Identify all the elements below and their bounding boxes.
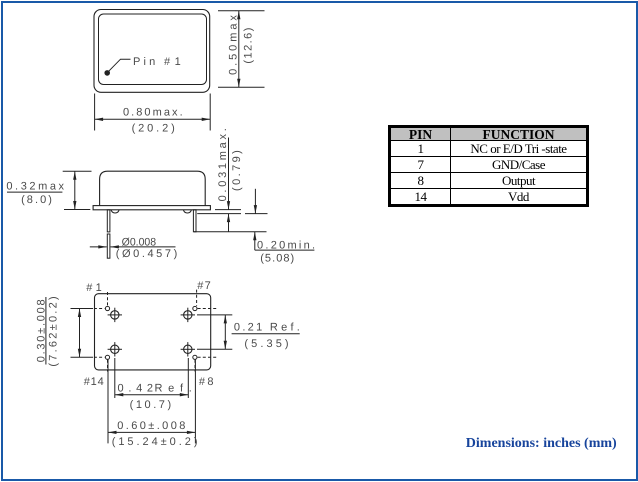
dim 0.21 underline: [232, 333, 300, 335]
top view outer outline: [94, 10, 210, 93]
svg-text:0.60±.008: 0.60±.008: [117, 420, 185, 432]
svg-text:(12.6): (12.6): [243, 28, 255, 64]
svg-text:0.21: 0.21: [234, 322, 262, 334]
dim 0.031max lower arrow line: [228, 214, 230, 232]
dim 0.30 fraction bar (vertical): [45, 297, 47, 365]
svg-text:Ø0.008: Ø0.008: [122, 236, 157, 248]
side view case body: [100, 171, 206, 205]
dim 0.30 extension line top: [71, 308, 94, 310]
hole #1 small circle: [105, 306, 109, 310]
leader dash #7 vertical: [196, 290, 198, 306]
svg-text:0.30±.008: 0.30±.008: [35, 299, 47, 362]
dim 0.20min upper arrow line: [254, 189, 256, 214]
pad #8 circle: [184, 345, 192, 353]
svg-text:#1: #1: [164, 56, 181, 68]
dim 0.80max extension line right: [209, 94, 211, 131]
dim 0.50max extension line top: [218, 10, 265, 12]
svg-text:0.80max.: 0.80max.: [123, 107, 183, 119]
dim 0.42 dimension line with arrows: [115, 394, 189, 396]
dim 0.32max extension line top: [63, 170, 92, 172]
dim 0.42 extension line left: [114, 358, 116, 398]
dim 0.60 extension line right: [194, 360, 196, 444]
svg-text:(15.24±0.2): (15.24±0.2): [112, 436, 198, 448]
standoff bottom extension line left: [197, 213, 241, 215]
svg-text:0.50max.: 0.50max.: [227, 9, 239, 75]
dim 0.30 dimension line with arrows: [79, 309, 81, 358]
pin #1 leader line: [109, 59, 131, 71]
leader dash #14 horizontal: [94, 356, 105, 358]
pad #14 cross: [108, 348, 122, 350]
dimensions note: [466, 438, 617, 451]
side view pin shoulder right: [184, 210, 192, 213]
side view base plate: [93, 206, 210, 210]
svg-text:(10.7): (10.7): [130, 399, 172, 411]
leader dash #7 horizontal: [198, 308, 219, 310]
svg-text:(7.62±0.2): (7.62±0.2): [47, 296, 59, 366]
svg-text:(5.08): (5.08): [260, 252, 294, 264]
pad #7 circle: [184, 311, 192, 319]
leader dash #1 horizontal: [94, 308, 105, 310]
dim 0.20min underline: [255, 249, 315, 251]
svg-text:(0.79): (0.79): [231, 150, 243, 191]
pad #1 circle: [111, 311, 119, 319]
standoff bottom extension line right: [245, 213, 268, 215]
svg-text:0.42: 0.42: [118, 382, 154, 394]
dim pin diameter right arrow with bar: [110, 246, 175, 248]
svg-text:(8.0): (8.0): [21, 194, 52, 206]
dim 0.031max upper arrow line: [228, 138, 230, 210]
dim 0.21 dimension line with arrows: [224, 315, 226, 349]
pin #1 index dot: [104, 70, 110, 76]
dim 0.32max fraction bar: [7, 191, 62, 193]
svg-text:Pin: Pin: [133, 56, 155, 68]
pin function table: [388, 125, 589, 207]
dim 0.50max dimension line with arrows: [238, 11, 240, 88]
side view pin shoulder left: [111, 210, 119, 213]
svg-text:#14: #14: [84, 376, 104, 388]
dim pin diameter left arrow: [90, 246, 107, 248]
hole #7 small circle: [193, 306, 197, 310]
dim 0.80max dimension line with arrows: [95, 118, 211, 120]
dim 0.30 extension line bottom: [71, 356, 94, 358]
leader dash #14 vertical: [107, 360, 109, 372]
leader dash #8 vertical: [194, 360, 196, 372]
pin tip extension line: [194, 231, 267, 233]
dim 0.60 dimension line with arrows: [108, 431, 195, 433]
bottom view outline: [95, 294, 211, 370]
svg-text:#8: #8: [199, 376, 214, 388]
dim 0.32max dimension line with arrows: [74, 171, 76, 209]
svg-text:#1: #1: [86, 282, 102, 294]
dim 0.80max extension line left: [94, 94, 96, 131]
dim 0.21 extension line top: [197, 314, 232, 316]
pad #8 cross: [181, 348, 195, 350]
svg-text:Ref.: Ref.: [270, 322, 300, 334]
svg-text:0.031max.: 0.031max.: [217, 128, 229, 201]
base bottom extension line: [215, 209, 241, 211]
dim 0.21 extension line bottom: [197, 348, 232, 350]
side view left pin lower segment: [107, 234, 110, 258]
pad #14 circle: [111, 345, 119, 353]
side view right pin: [193, 210, 196, 232]
top view inner lid outline: [99, 14, 207, 85]
svg-text:(5.35): (5.35): [244, 338, 288, 350]
side view left pin upper segment: [107, 210, 110, 232]
svg-text:(20.2): (20.2): [132, 123, 175, 135]
dim 0.20min lower arrow line: [254, 232, 256, 250]
pad #7 cross: [181, 314, 195, 316]
svg-text:0.32max: 0.32max: [6, 181, 64, 193]
dim 0.50max extension line bottom: [218, 86, 265, 88]
svg-text:(Ø0.457): (Ø0.457): [116, 248, 178, 260]
svg-text:Ref.: Ref.: [155, 382, 192, 394]
leader dash #8 horizontal: [198, 356, 219, 358]
hole #8 small circle: [193, 355, 197, 359]
dim 0.60 extension line left: [107, 360, 109, 444]
pad #1 cross: [108, 314, 122, 316]
dim 0.32max extension line bottom: [64, 209, 90, 211]
leader dash #1 vertical: [107, 292, 109, 306]
hole #14 small circle: [105, 355, 109, 359]
svg-text:#7: #7: [197, 280, 211, 292]
dim 0.42 extension line right: [187, 358, 189, 398]
pin #1 label: [133, 56, 181, 68]
